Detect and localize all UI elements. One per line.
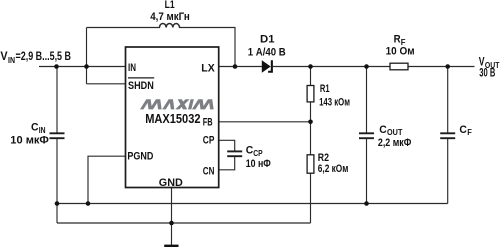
- wire: C_OUT bottom lead: [366, 139, 368, 204]
- svg-text:CP: CP: [203, 134, 215, 146]
- svg-text:IN: IN: [39, 126, 46, 135]
- label: L1 value 4,7 мкГн: [150, 11, 190, 23]
- wire: C_F bottom lead: [447, 139, 449, 204]
- svg-text:MAX15032: MAX15032: [145, 111, 200, 126]
- svg-text:10 нФ: 10 нФ: [246, 158, 271, 170]
- wire: CN lead: [219, 157, 235, 170]
- svg-text:1 А/40 В: 1 А/40 В: [248, 47, 286, 59]
- label: L1: [165, 0, 175, 11]
- label: D1: [260, 34, 275, 46]
- resistor RF body: [390, 63, 408, 70]
- node: PGND ground junction: [86, 201, 91, 206]
- wire: V_IN input rail: [39, 66, 126, 68]
- label: C_CP value 10 нФ: [246, 158, 271, 170]
- svg-text:R1: R1: [320, 83, 330, 95]
- diode D1 (Schottky): [262, 60, 273, 72]
- wire: C_IN top lead: [56, 67, 58, 133]
- node: VIN / L1-SHDN branch junction: [84, 64, 89, 69]
- node: C_OUT ground junction: [364, 201, 369, 206]
- svg-text:V: V: [0, 51, 8, 63]
- label: RF value 10 Ом: [386, 45, 415, 57]
- label: VOUT value 30 В: [479, 68, 495, 80]
- svg-text:CP: CP: [253, 149, 263, 158]
- node: C_OUT top junction: [364, 64, 369, 69]
- svg-text:2,2 мкФ: 2,2 мкФ: [378, 137, 411, 149]
- wire: diode cathode to RF: [273, 66, 390, 68]
- IC part number MAX15032: [145, 111, 200, 126]
- resistor R1 body: [307, 86, 314, 102]
- svg-text:D1: D1: [260, 34, 275, 46]
- svg-text:10 мкФ: 10 мкФ: [10, 135, 49, 147]
- label: R1: [320, 83, 330, 95]
- wire: GND pin to earth: [171, 188, 173, 245]
- wire: CP lead: [219, 140, 235, 150]
- wire: ground rail lower: [57, 222, 311, 224]
- inductor L1: [160, 23, 180, 27]
- label: D1 value 1 А/40 В: [248, 47, 286, 59]
- wire: R1 bottom lead: [310, 102, 312, 122]
- svg-text:IN: IN: [8, 56, 15, 65]
- capacitor C_F plates: [440, 133, 455, 138]
- wire: top loop to inductor: [87, 27, 161, 29]
- wire: C_OUT top lead: [366, 67, 368, 133]
- label: R2: [318, 152, 329, 164]
- pin label FB: [203, 116, 213, 128]
- svg-text:4,7 мкГн: 4,7 мкГн: [150, 11, 190, 23]
- svg-text:C: C: [379, 124, 387, 136]
- label: VOUT: [479, 57, 500, 70]
- pin label CN: [203, 165, 215, 177]
- svg-text:R: R: [394, 34, 401, 46]
- wire: branch vertical from L1 top to SHDN: [86, 28, 88, 84]
- capacitor C_IN plates: [50, 133, 65, 138]
- svg-text:10 Ом: 10 Ом: [386, 45, 415, 57]
- pin label SHDN (with overline): [128, 78, 154, 92]
- wire: R2 bottom lead to lower rail: [310, 173, 312, 223]
- label: C_OUT value 2,2 мкФ: [378, 137, 411, 149]
- label: VIN input voltage: [0, 51, 71, 65]
- svg-text:SHDN: SHDN: [128, 80, 154, 92]
- wire: RF to VOUT: [408, 66, 475, 68]
- ground: [164, 245, 178, 247]
- svg-text:IN: IN: [128, 62, 136, 74]
- svg-text:FB: FB: [203, 116, 213, 128]
- label: C_CP: [246, 145, 264, 158]
- node: C_IN ground junction: [55, 201, 60, 206]
- svg-text:PGND: PGND: [127, 150, 153, 162]
- svg-text:6,2 кОм: 6,2 кОм: [318, 163, 349, 175]
- resistor R2 body: [307, 155, 314, 173]
- label: RF: [394, 34, 406, 47]
- svg-text:=2,9 В...5,5 В: =2,9 В...5,5 В: [16, 51, 72, 63]
- node: GND lower rail junction: [169, 221, 174, 226]
- svg-text:CN: CN: [203, 165, 215, 177]
- pin label PGND: [127, 150, 153, 162]
- svg-text:F: F: [467, 128, 472, 137]
- capacitor C_OUT plates: [359, 133, 374, 138]
- svg-text:C: C: [246, 145, 254, 157]
- label: R2 value 6,2 кОм: [318, 163, 349, 175]
- pin label LX: [201, 62, 215, 74]
- node: LX / L1 junction: [233, 64, 238, 69]
- wire: LX output to diode: [219, 66, 262, 68]
- wire: SHDN feed: [87, 83, 126, 85]
- wire: R1 top lead: [310, 67, 312, 86]
- capacitor C_CP plates: [227, 151, 242, 156]
- label: C_OUT: [379, 124, 402, 137]
- pin label IN: [128, 62, 136, 74]
- label: R1 value 143 кОм: [319, 96, 350, 108]
- wire: FB sense: [219, 121, 311, 123]
- svg-text:OUT: OUT: [387, 128, 402, 137]
- svg-text:C: C: [31, 122, 39, 134]
- svg-text:L1: L1: [165, 0, 175, 11]
- node: FB / R1 / R2 junction: [308, 120, 313, 125]
- label: C_F: [459, 124, 472, 137]
- wire: C_IN bottom lead down to ground rails: [56, 139, 58, 223]
- svg-text:30 В: 30 В: [479, 68, 495, 80]
- label: C_IN: [31, 122, 46, 135]
- node: C_F / VOUT junction: [445, 64, 450, 69]
- svg-text:143 кОм: 143 кОм: [319, 96, 350, 108]
- pin label CP: [203, 134, 215, 146]
- pin label GND: [159, 177, 183, 189]
- node: diode / R1 junction: [308, 64, 313, 69]
- node: VIN / C_IN junction: [54, 64, 59, 69]
- wire: inductor to LX branch: [179, 28, 235, 67]
- wire: PGND lead: [88, 156, 126, 203]
- svg-text:C: C: [459, 124, 467, 136]
- svg-text:GND: GND: [159, 177, 183, 189]
- wire: R2 top lead: [310, 122, 312, 155]
- wire: C_F top lead: [447, 67, 449, 133]
- op-amp U1 MAX15032 package outline: [126, 47, 219, 188]
- svg-text:LX: LX: [201, 62, 215, 74]
- wire: ground rail upper: [57, 203, 448, 205]
- label: C_IN value 10 мкФ: [10, 135, 49, 147]
